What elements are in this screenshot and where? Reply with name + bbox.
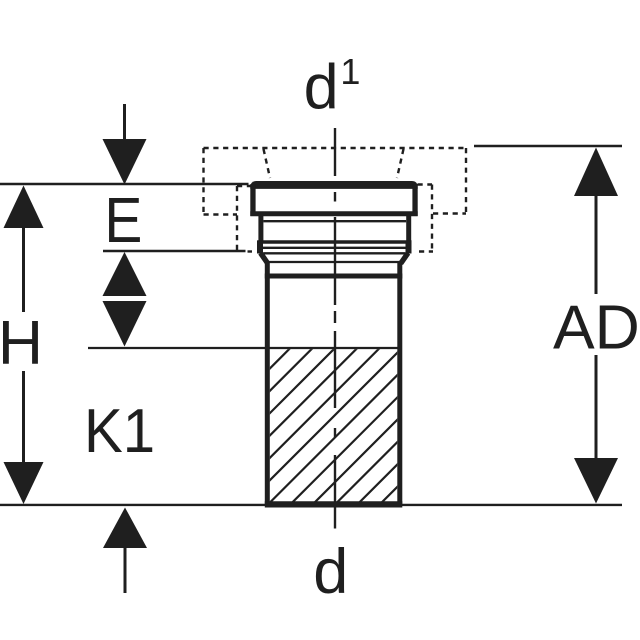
pipe socket: top band (filled, rounded top corners) [250,181,417,189]
reference line AD top (right) [474,145,622,147]
pipe bottom thick line [265,501,403,507]
svg-text:AD: AD [553,292,640,362]
dimension AD vertical with arrowheads [574,148,618,197]
rib: left nub [257,241,263,254]
center line (dash-dot) [334,128,336,529]
dashed contour: right slant at mouth [397,149,404,178]
dashed contour: right inner vertical [431,185,433,252]
dashed contour: left slant at mouth [264,149,271,178]
arrow E lower / K1 upper (diamond double head) [103,252,147,296]
socket step: left wall [258,216,263,242]
dashed contour: left bottom horizontal [204,213,238,215]
dashed contour: right bottom horizontal [433,212,466,214]
arrow K1 lower (up arrow below bottom line) [103,508,147,549]
dashed contour: left outer vertical [202,148,204,215]
dashed contour: left inner vertical [236,186,238,252]
svg-text:E: E [104,184,142,256]
rib: right nub [406,241,412,254]
svg-text:H: H [0,308,43,378]
taper thin ring line [269,261,400,263]
reference line bottom (full width) [0,504,622,506]
collar thick line [265,274,403,279]
dimension H vertical with arrowheads [4,186,44,229]
reference line K1 top / hatch top [88,347,398,349]
dashed contour: right small horizontal at socket [418,183,433,185]
pipe wall right [397,262,402,505]
arrow E upper (down arrow) [123,104,126,141]
pipe socket: bottom thick line [250,211,417,216]
dashed contour: top line [204,147,467,149]
taper right [401,253,408,264]
svg-text:K1: K1 [84,395,155,465]
reference line E bottom [103,250,246,252]
taper left [261,253,268,264]
rib: medium line [257,240,411,244]
rib: thin line 1 [262,247,408,249]
dashed contour: right outer vertical [465,148,467,214]
reference line E bottom dash end [248,250,253,252]
socket step: right wall [406,216,411,242]
rib: thin line 2 [264,252,406,254]
socket step: thin ring line [263,220,406,222]
svg-text:d: d [304,53,339,123]
svg-text:d: d [313,537,348,607]
pipe wall left [265,262,270,505]
dashed contour: right bottom small horizontal [419,250,433,252]
dashed contour: left small horizontal at socket [237,185,251,187]
reference line E top (left) [0,183,249,185]
svg-text:1: 1 [340,51,360,92]
